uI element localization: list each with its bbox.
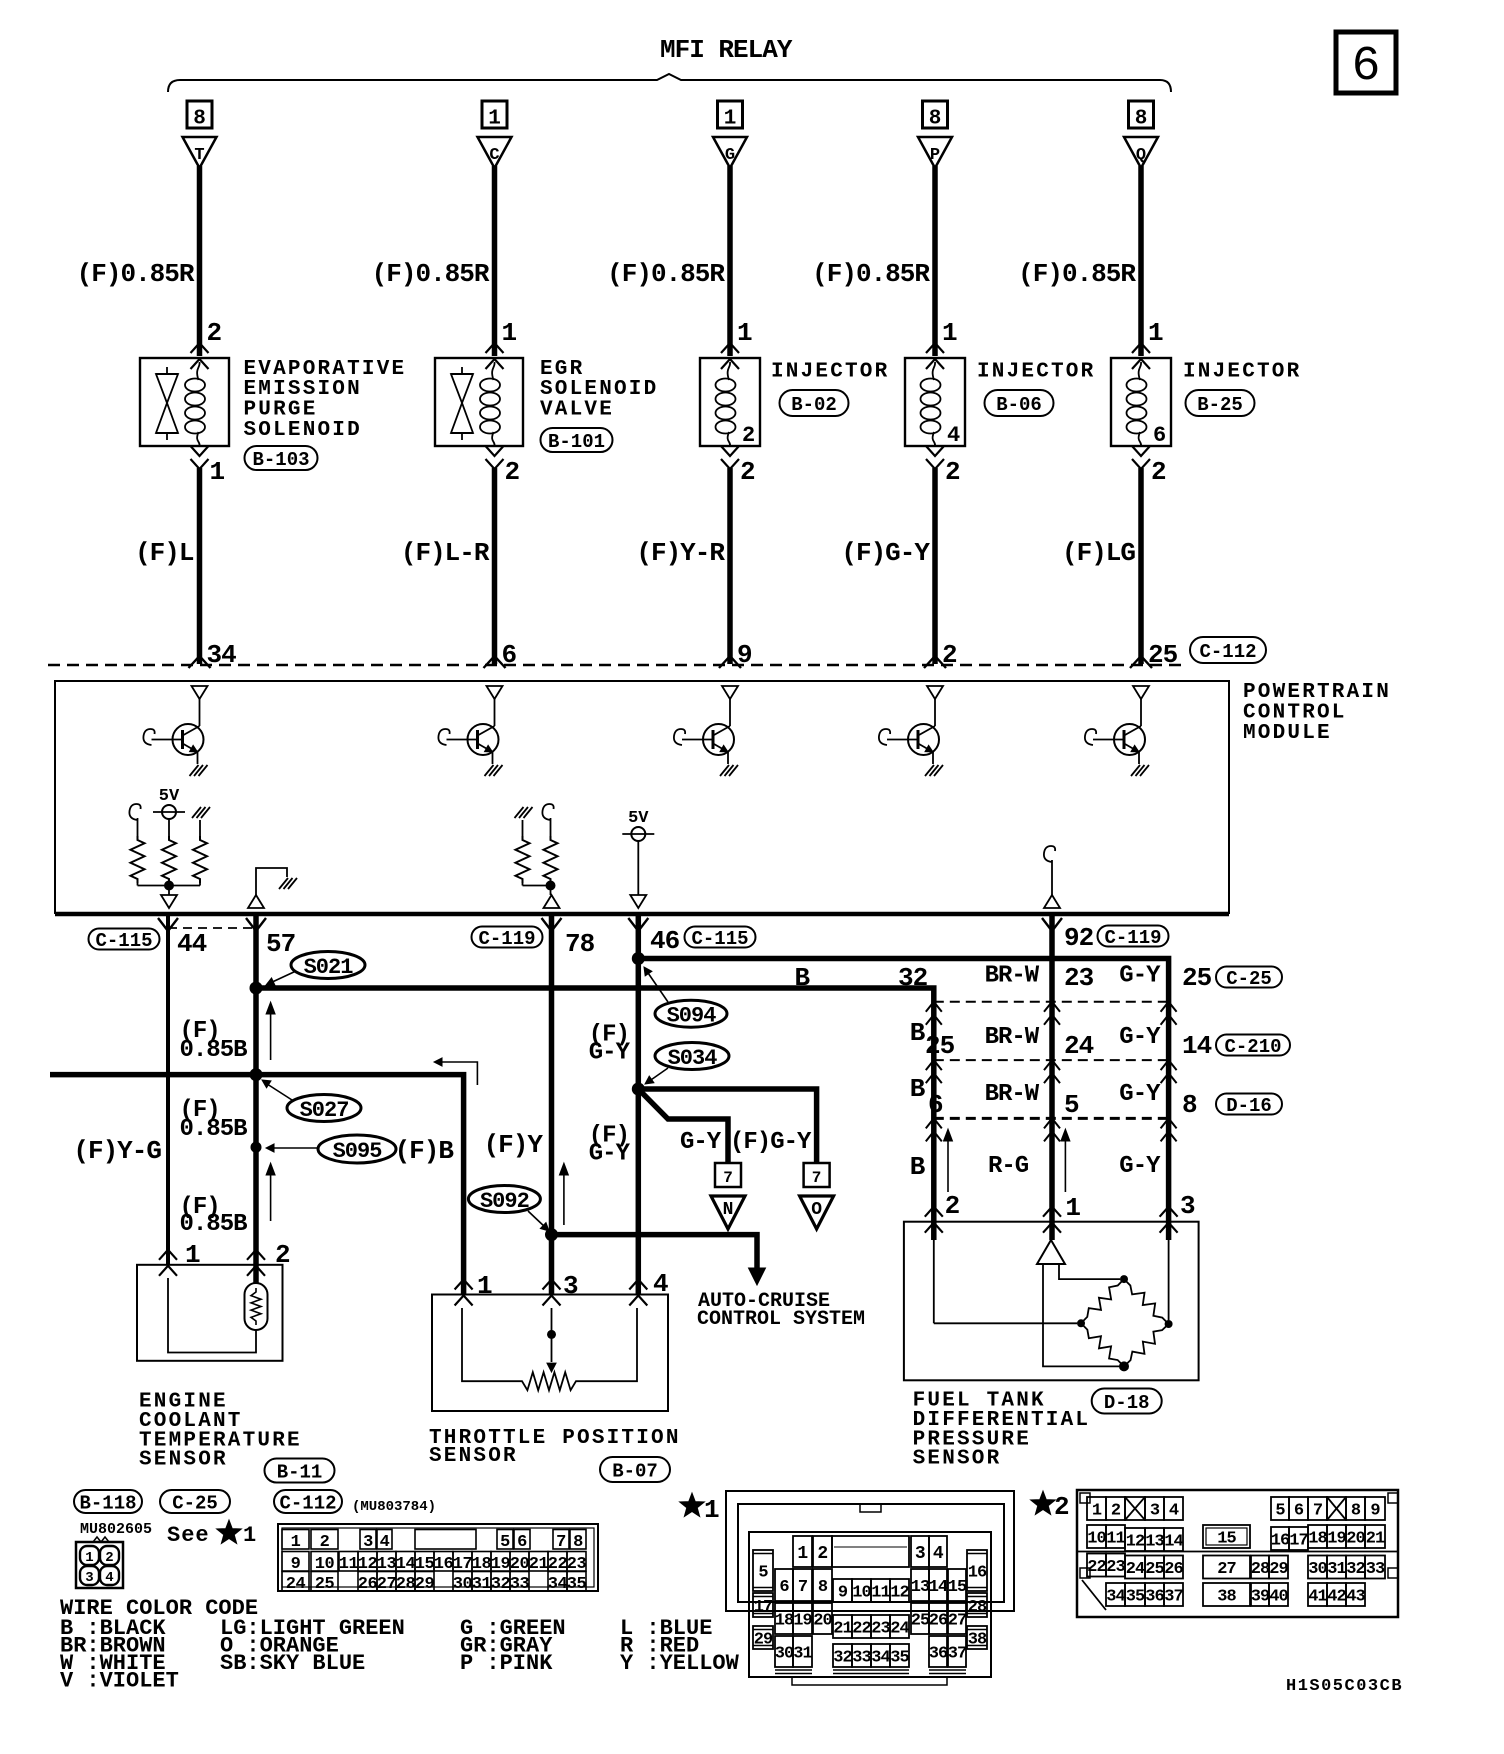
svg-text:11: 11 (1106, 1530, 1125, 1549)
svg-text:13: 13 (1145, 1533, 1164, 1552)
FTDP inner wiring (1059, 1264, 1120, 1279)
wire pin 57 to ECT sensor (253, 914, 259, 1283)
svg-text:21: 21 (1366, 1530, 1385, 1549)
internal link (pin 92 net) (1044, 846, 1055, 862)
svg-text:36: 36 (929, 1645, 948, 1664)
svg-text:5V: 5V (159, 787, 180, 806)
chevron into PCM (924, 656, 946, 668)
svg-text:1: 1 (942, 318, 957, 348)
badge D-18 (1092, 1389, 1162, 1414)
MFI relay pin box 1 (circuit 2) (482, 101, 507, 128)
svg-text:27: 27 (1217, 1560, 1236, 1579)
wire (F)0.85R circuit 1 (197, 166, 203, 356)
svg-text:Y :YELLOW: Y :YELLOW (620, 1651, 740, 1676)
svg-text:S021: S021 (304, 955, 354, 980)
star1 connector drawing (726, 1491, 1014, 1611)
wire pin 78 to TPS (549, 914, 555, 1295)
PCM driver transistor 4 (927, 686, 943, 699)
svg-text:25: 25 (1182, 963, 1212, 993)
svg-text:46: 46 (650, 926, 680, 956)
connector chevrons into component box (486, 343, 504, 353)
ECT thermistor (245, 1283, 268, 1330)
output triangle pin 44 net (161, 895, 177, 908)
svg-text:C-115: C-115 (95, 930, 152, 952)
svg-text:6: 6 (517, 1533, 527, 1552)
ECT entry chevrons pin 2 (247, 1250, 265, 1260)
svg-text:C-112: C-112 (279, 1492, 336, 1514)
relay terminal triangle P (918, 137, 952, 168)
svg-text:18: 18 (775, 1612, 794, 1631)
svg-text:INJECTOR: INJECTOR (771, 360, 889, 383)
svg-text:(F)G-Y: (F)G-Y (730, 1129, 812, 1156)
svg-text:BR-W: BR-W (985, 963, 1040, 990)
svg-text:S027: S027 (300, 1098, 349, 1123)
relay terminal triangle T (183, 137, 217, 168)
badge C-119 (second) (1098, 926, 1169, 947)
svg-text:6: 6 (779, 1578, 789, 1597)
dashed connector row D-16 (934, 1117, 1169, 1120)
wire S092 to auto-cruise (552, 1235, 758, 1268)
svg-text:1: 1 (1092, 1502, 1102, 1521)
svg-text:(F)L-R: (F)L-R (401, 538, 490, 568)
svg-text:9: 9 (838, 1584, 848, 1603)
svg-text:4: 4 (1169, 1502, 1179, 1521)
page number box 6 (1336, 32, 1396, 93)
wire (F)L circuit 1 (197, 468, 203, 664)
svg-text:(MU803784): (MU803784) (352, 1499, 436, 1515)
S034 label (655, 1043, 729, 1070)
svg-text:78: 78 (565, 929, 595, 959)
svg-text:8: 8 (1351, 1502, 1361, 1521)
svg-text:2: 2 (1151, 457, 1166, 487)
svg-text:24: 24 (1064, 1031, 1094, 1061)
connector triangle N (711, 1196, 745, 1229)
S027 label (287, 1095, 361, 1122)
svg-text:7: 7 (556, 1533, 566, 1552)
svg-text:31: 31 (1327, 1560, 1346, 1579)
svg-text:(F)0.85R: (F)0.85R (372, 259, 490, 289)
S021 label (291, 952, 365, 979)
powertrain control module box (55, 681, 1229, 914)
svg-text:SB:SKY BLUE: SB:SKY BLUE (220, 1651, 365, 1676)
svg-text:1: 1 (210, 457, 225, 487)
svg-text:G-Y: G-Y (1119, 963, 1161, 990)
svg-text:G: G (725, 146, 735, 165)
junction S027 (250, 1068, 263, 1081)
svg-text:5: 5 (1064, 1090, 1079, 1120)
svg-text:2: 2 (817, 1544, 827, 1564)
svg-text:(F)Y-R: (F)Y-R (636, 538, 725, 568)
TPS box (432, 1295, 668, 1412)
svg-text:14: 14 (1164, 1533, 1183, 1552)
TPS potentiometer (462, 1308, 518, 1381)
PCM output fork pin 92 (1042, 918, 1062, 931)
wire (F)0.85R circuit 2 (492, 166, 498, 356)
svg-text:29: 29 (754, 1631, 773, 1650)
svg-text:B-25: B-25 (1197, 394, 1243, 416)
wire sensor ground bus (50, 1075, 464, 1295)
star1 crimp hatching (775, 1669, 812, 1671)
svg-text:B-02: B-02 (791, 394, 837, 416)
star1 marker (680, 1493, 705, 1517)
svg-text:(F)Y-G: (F)Y-G (73, 1136, 161, 1166)
svg-text:P: P (930, 146, 940, 165)
svg-text:35: 35 (567, 1575, 587, 1594)
svg-text:5V: 5V (628, 809, 649, 828)
svg-text:7: 7 (723, 1169, 733, 1187)
svg-text:R-G: R-G (988, 1153, 1029, 1180)
svg-text:4: 4 (105, 1570, 113, 1586)
svg-text:29: 29 (1269, 1560, 1288, 1579)
badge D-16 (1216, 1094, 1282, 1115)
svg-text:G-Y: G-Y (680, 1129, 722, 1156)
badge C-112 (top) (1190, 637, 1266, 663)
star2 connector drawing (1077, 1490, 1398, 1617)
wire (F)L-R circuit 2 (492, 468, 498, 664)
svg-text:5: 5 (500, 1533, 510, 1552)
svg-text:25: 25 (911, 1612, 930, 1631)
svg-text:MU802605: MU802605 (80, 1521, 152, 1538)
svg-text:33: 33 (510, 1575, 530, 1594)
svg-text:C-112: C-112 (1199, 641, 1256, 663)
svg-text:4: 4 (933, 1544, 944, 1564)
svg-text:21: 21 (529, 1555, 549, 1574)
svg-text:CONTROL SYSTEM: CONTROL SYSTEM (697, 1308, 865, 1331)
svg-text:VALVE: VALVE (540, 399, 614, 422)
svg-text:SOLENOID: SOLENOID (244, 419, 362, 442)
badge B-25 (1186, 390, 1255, 416)
svg-text:32: 32 (898, 963, 928, 993)
PCM output fork pin 44 (158, 918, 178, 931)
svg-text:12: 12 (1126, 1533, 1145, 1552)
svg-text:C: C (489, 146, 499, 165)
svg-text:(F)L: (F)L (135, 538, 194, 568)
svg-text:34: 34 (871, 1649, 890, 1668)
svg-text:S034: S034 (668, 1046, 718, 1071)
badge C-25 (1216, 967, 1282, 988)
svg-text:3: 3 (1150, 1502, 1160, 1521)
svg-text:B-103: B-103 (252, 449, 309, 471)
svg-text:G-Y: G-Y (1119, 1153, 1161, 1180)
direction arrows (270, 1011, 272, 1060)
svg-text:38: 38 (1217, 1588, 1236, 1607)
svg-text:P :PINK: P :PINK (460, 1651, 553, 1676)
svg-text:(F)0.85R: (F)0.85R (607, 259, 725, 289)
svg-text:0.85B: 0.85B (180, 1116, 248, 1143)
svg-text:B: B (910, 1074, 926, 1104)
svg-text:(F)B: (F)B (395, 1136, 455, 1166)
5V pullup network (ECT) (129, 804, 140, 820)
wire S034 branch to connector N (638, 1089, 728, 1163)
junction (546, 881, 556, 891)
svg-text:16: 16 (1271, 1532, 1290, 1551)
valve symbol (461, 367, 463, 374)
FTDP sensor box (904, 1222, 1199, 1381)
svg-text:13: 13 (911, 1578, 930, 1597)
svg-text:1: 1 (1065, 1193, 1080, 1223)
svg-text:37: 37 (1164, 1588, 1183, 1607)
svg-text:1: 1 (185, 1240, 200, 1270)
svg-text:1: 1 (85, 1550, 93, 1566)
connector C-112 pin table (278, 1524, 598, 1591)
svg-text:18: 18 (1308, 1530, 1327, 1549)
svg-text:19: 19 (793, 1612, 812, 1631)
svg-text:22: 22 (852, 1620, 871, 1639)
component box circuit 4 (905, 358, 965, 446)
svg-text:37: 37 (948, 1645, 967, 1664)
connector chevrons into component box (1132, 343, 1150, 353)
svg-text:5: 5 (1275, 1502, 1285, 1521)
dashed connector row C-25 (934, 1001, 1169, 1003)
svg-text:See: See (167, 1523, 210, 1548)
svg-text:21: 21 (833, 1620, 852, 1639)
svg-text:2: 2 (505, 457, 520, 487)
MFI relay pin box 1 (circuit 3) (718, 101, 743, 128)
FTDP entry chevrons (925, 1207, 943, 1217)
svg-text:H1S05C03CB: H1S05C03CB (1286, 1677, 1403, 1696)
svg-text:31: 31 (793, 1645, 812, 1664)
svg-text:3: 3 (85, 1570, 93, 1586)
svg-text:14: 14 (1182, 1031, 1212, 1061)
output triangle pin 92 net (1044, 895, 1060, 908)
svg-text:1: 1 (488, 108, 501, 131)
svg-text:25: 25 (925, 1031, 955, 1061)
svg-text:16: 16 (434, 1555, 454, 1574)
resistor R network left (131, 836, 145, 883)
5V pullup network (TPS) (515, 807, 524, 818)
svg-text:7: 7 (1313, 1502, 1323, 1521)
svg-text:41: 41 (1308, 1588, 1327, 1607)
svg-text:25: 25 (1145, 1560, 1164, 1579)
injector coil (933, 362, 936, 380)
svg-text:B-11: B-11 (277, 1461, 323, 1483)
svg-text:29: 29 (415, 1575, 435, 1594)
connector chevrons out of component box (926, 446, 944, 456)
svg-text:2: 2 (742, 423, 754, 448)
wire (F)G-Y circuit 4 (932, 468, 938, 664)
chevron into PCM (484, 656, 506, 668)
svg-text:C-25: C-25 (1226, 968, 1272, 990)
svg-text:N: N (723, 1200, 734, 1220)
wire S034 branch to connector O (638, 1089, 816, 1163)
svg-text:C-115: C-115 (691, 928, 748, 950)
badge B-103 (245, 446, 318, 470)
svg-text:23: 23 (871, 1620, 890, 1639)
svg-text:24: 24 (890, 1620, 909, 1639)
svg-text:(F)0.85R: (F)0.85R (77, 259, 195, 289)
PCM output fork pin 57 (246, 918, 266, 931)
svg-text:MFI RELAY: MFI RELAY (660, 35, 793, 65)
svg-text:35: 35 (1126, 1588, 1145, 1607)
svg-text:15: 15 (948, 1578, 967, 1597)
badge C-210 (1216, 1035, 1290, 1056)
svg-text:2: 2 (740, 457, 755, 487)
badge B-07 (600, 1457, 670, 1482)
connector 7 box N (715, 1163, 741, 1187)
svg-text:23: 23 (1106, 1558, 1125, 1577)
chevron into PCM (1130, 656, 1152, 668)
svg-text:4: 4 (653, 1269, 668, 1299)
svg-text:S094: S094 (667, 1004, 717, 1029)
badge B-118 (74, 1490, 142, 1513)
component box circuit 5 (1111, 358, 1171, 446)
svg-text:2: 2 (320, 1533, 330, 1552)
output triangle pin 46 net (630, 895, 646, 908)
solenoid coil (492, 362, 495, 380)
svg-text:3: 3 (563, 1271, 578, 1301)
svg-text:11: 11 (339, 1555, 359, 1574)
svg-text:7: 7 (798, 1578, 808, 1597)
PCM driver transistor 5 (1133, 686, 1149, 699)
ECT inner wiring (168, 1278, 256, 1353)
svg-text:SENSOR: SENSOR (913, 1448, 1002, 1471)
svg-text:0.85B: 0.85B (180, 1211, 248, 1238)
MFI relay bracket (168, 74, 1171, 92)
svg-text:2: 2 (945, 1191, 960, 1221)
ECT entry chevrons pin 1 (159, 1250, 177, 1260)
connector chevrons into component box (926, 343, 944, 353)
svg-text:6: 6 (1352, 40, 1381, 94)
svg-text:32: 32 (1346, 1560, 1365, 1579)
svg-text:G-Y: G-Y (1119, 1081, 1161, 1108)
svg-text:2: 2 (1054, 1492, 1070, 1522)
svg-text:32: 32 (833, 1649, 852, 1668)
svg-text:1: 1 (704, 1495, 720, 1525)
svg-text:SENSOR: SENSOR (429, 1445, 518, 1468)
junction S034 (632, 1083, 645, 1096)
svg-text:15: 15 (1217, 1530, 1236, 1549)
wire (F)0.85R circuit 5 (1138, 166, 1144, 356)
svg-text:INJECTOR: INJECTOR (1183, 360, 1301, 383)
svg-text:1: 1 (477, 1271, 492, 1301)
svg-text:30: 30 (1308, 1560, 1327, 1579)
svg-text:1: 1 (243, 1523, 256, 1548)
svg-text:44: 44 (177, 929, 207, 959)
connector 7 box O (804, 1163, 830, 1187)
svg-text:33: 33 (852, 1649, 871, 1668)
svg-text:20: 20 (1346, 1530, 1365, 1549)
svg-text:33: 33 (1366, 1560, 1385, 1579)
FTDP bridge (1081, 1279, 1124, 1323)
S095 label (318, 1135, 396, 1163)
svg-text:G-Y: G-Y (589, 1040, 631, 1067)
PCM output fork pin 46 (628, 918, 648, 931)
svg-text:D-18: D-18 (1104, 1392, 1150, 1414)
svg-text:32: 32 (491, 1575, 511, 1594)
badge C-25 (bottom) (160, 1490, 230, 1513)
svg-text:1: 1 (291, 1533, 301, 1552)
chevron into PCM (719, 656, 741, 668)
relay terminal triangle G (713, 137, 747, 168)
component box circuit 2 (435, 358, 523, 446)
svg-text:24: 24 (286, 1575, 306, 1594)
svg-text:34: 34 (1106, 1588, 1125, 1607)
connector chevrons out of component box (721, 446, 739, 456)
svg-text:(F)0.85R: (F)0.85R (1018, 259, 1136, 289)
PCM driver transistor 2 (487, 686, 503, 699)
PCM output fork pin 78 (542, 918, 562, 931)
svg-text:2: 2 (275, 1240, 290, 1270)
svg-text:16: 16 (968, 1564, 987, 1583)
star2 corner notches (1080, 1493, 1090, 1503)
svg-text:D-16: D-16 (1226, 1095, 1272, 1117)
svg-text:9: 9 (1370, 1502, 1380, 1521)
S092 label (468, 1186, 540, 1213)
svg-text:92: 92 (1064, 923, 1094, 953)
TPS wiper (551, 1308, 553, 1362)
svg-text:22: 22 (1087, 1558, 1106, 1577)
svg-text:43: 43 (1346, 1588, 1365, 1607)
svg-text:SENSOR: SENSOR (139, 1449, 228, 1472)
svg-text:8: 8 (1135, 108, 1148, 131)
wire S021 ground bus (256, 988, 934, 1240)
svg-text:57: 57 (266, 929, 295, 959)
svg-text:8: 8 (929, 108, 942, 131)
svg-text:6: 6 (1153, 423, 1165, 448)
output triangle pin 78 net (544, 895, 560, 908)
svg-text:C-119: C-119 (478, 928, 535, 950)
svg-text:25: 25 (315, 1575, 335, 1594)
svg-text:(F)0.85R: (F)0.85R (812, 259, 930, 289)
junction S095 (251, 1142, 262, 1153)
MFI relay pin box 8 (circuit 5) (1129, 101, 1154, 128)
svg-text:O: O (811, 1200, 822, 1220)
svg-text:30: 30 (453, 1575, 473, 1594)
svg-text:36: 36 (1145, 1588, 1164, 1607)
svg-text:10: 10 (852, 1584, 871, 1603)
svg-text:INJECTOR: INJECTOR (977, 360, 1095, 383)
svg-text:B-06: B-06 (996, 394, 1042, 416)
badge B-101 (541, 428, 613, 452)
svg-text:Q: Q (1136, 146, 1146, 165)
connector B-118 pin diagram (93, 1537, 109, 1542)
component box circuit 3 (700, 358, 760, 446)
injector coil (728, 362, 731, 380)
connector C-112 dashed boundary (48, 664, 1183, 667)
connector chevrons out of component box (486, 446, 504, 456)
svg-text:B-07: B-07 (612, 1460, 658, 1482)
svg-text:G-Y: G-Y (589, 1141, 631, 1168)
svg-text:1: 1 (737, 318, 752, 348)
internal ground link (pin 57 net) (248, 895, 264, 908)
badge C-115 (left) (89, 929, 160, 950)
connector triangle O (800, 1196, 834, 1229)
wire (F)0.85R circuit 4 (932, 166, 938, 356)
dashed connector link 44-57 (168, 927, 256, 929)
wire pin 46 to TPS (636, 914, 642, 1295)
svg-text:42: 42 (1327, 1588, 1346, 1607)
svg-text:35: 35 (890, 1649, 909, 1668)
wire pin 44 to ECT sensor (166, 914, 170, 1265)
svg-text:S095: S095 (333, 1139, 383, 1164)
svg-text:27: 27 (948, 1612, 967, 1631)
svg-text:26: 26 (358, 1575, 378, 1594)
svg-text:2: 2 (105, 1550, 113, 1566)
svg-text:V :VIOLET: V :VIOLET (60, 1669, 179, 1694)
svg-text:8: 8 (818, 1578, 828, 1597)
svg-text:1: 1 (724, 108, 737, 131)
svg-text:10: 10 (1087, 1530, 1106, 1549)
svg-text:8: 8 (1182, 1090, 1197, 1120)
chevron into PCM (189, 656, 211, 668)
svg-text:S092: S092 (480, 1189, 529, 1214)
S094 label (655, 1000, 727, 1027)
junction S094 (632, 952, 645, 965)
svg-text:(F)LG: (F)LG (1062, 538, 1135, 568)
svg-text:B: B (910, 1018, 926, 1048)
continuation arrow (438, 1062, 477, 1085)
badge C-119 (TPS) (472, 927, 543, 948)
